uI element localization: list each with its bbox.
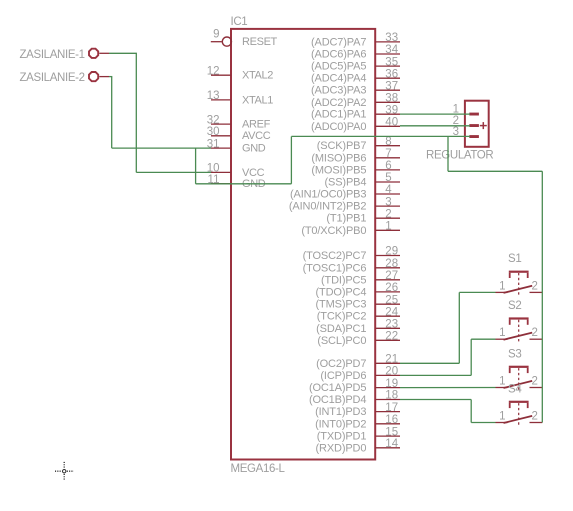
pin 12 (XTAL2) of IC1, left side [211,74,231,76]
wire PA1 net: IC1 pin 39 to REGULATOR pin 1 [400,113,470,115]
svg-text:5: 5 [385,172,391,184]
svg-text:(MOSI)PB5: (MOSI)PB5 [311,164,366,176]
svg-text:(SCL)PC0: (SCL)PC0 [317,335,366,347]
S1 actuator dashed link [518,273,520,295]
svg-text:14: 14 [385,438,398,450]
S3 actuator left stub [509,368,511,373]
pin 16 ((INT0)PD2) of IC1, right side [375,423,400,425]
wire GND net: branch down to pin 11 row [195,148,197,184]
svg-text:2: 2 [532,280,538,292]
S4 actuator right stub [527,403,529,408]
switch S4 (push button) [496,383,543,425]
svg-text:(INT0)PD2: (INT0)PD2 [315,418,366,430]
svg-text:VCC: VCC [242,167,265,179]
svg-text:32: 32 [207,114,220,126]
svg-text:S4: S4 [508,383,522,395]
switch S2 (push button) [496,300,543,342]
svg-text:6: 6 [385,160,391,172]
pin 14 ((RXD)PD0) of IC1, right side [375,447,400,449]
pin 6 ((MOSI)PB5) of IC1, right side [375,169,400,171]
pin 22 ((SCL)PC0) of IC1, right side [375,339,400,341]
pin 10 (VCC) of IC1, left side [211,171,231,173]
pin 25 ((TMS)PC3) of IC1, right side [375,303,400,305]
connector pad ZASILANIE-2 [20,72,110,84]
pin 27 ((TDI)PC5) of IC1, right side [375,279,400,281]
pin 32 (AREF) of IC1, left side [211,123,231,125]
svg-text:ZASILANIE-2: ZASILANIE-2 [20,72,85,84]
svg-text:(TOSC2)PC7: (TOSC2)PC7 [303,250,367,262]
S1 pin 1 line [496,291,508,293]
pin 2 ((T1)PB1) of IC1, right side [375,217,400,219]
svg-text:28: 28 [385,258,398,270]
S4 actuator left stub [509,403,511,408]
REGULATOR contact pin 3 [469,135,479,138]
svg-text:(MISO)PB6: (MISO)PB6 [311,152,366,164]
S1 actuator right stub [527,273,529,278]
svg-text:AVCC: AVCC [242,130,271,142]
pin 11 (GND) of IC1, left side [211,183,231,185]
polarity + mark [480,125,487,127]
svg-text:17: 17 [385,402,398,414]
svg-text:(ICP)PD6: (ICP)PD6 [320,370,366,382]
svg-text:20: 20 [385,366,398,378]
junction GND at regulator pin 3 drop [447,136,449,171]
connector REGULATOR body [426,101,493,162]
svg-text:MEGA16-L: MEGA16-L [231,463,286,475]
wire PD4 net: down to S4 [470,400,472,423]
svg-text:(SDA)PC1: (SDA)PC1 [316,323,366,335]
svg-text:39: 39 [385,104,398,116]
pin 20 ((ICP)PD6) of IC1, right side [375,374,400,376]
pin 8 ((SCK)PB7) of IC1, right side [375,145,400,147]
pin stub of ZASILANIE-1 [99,52,109,54]
pin 21 ((OC2)PD7) of IC1, right side [375,362,400,364]
switch S3 (push button) [496,348,543,390]
svg-text:(OC1B)PD4: (OC1B)PD4 [309,394,366,406]
pin 4 ((AIN1/OC0)PB3) of IC1, right side [375,193,400,195]
svg-text:30: 30 [207,126,220,138]
svg-text:19: 19 [385,378,398,390]
pin 1 ((T0/XCK)PB0) of IC1, right side [375,229,400,231]
switch S1 (push button) [496,253,543,295]
svg-text:1: 1 [499,327,505,339]
svg-text:(TMS)PC3: (TMS)PC3 [316,299,367,311]
svg-text:1: 1 [499,376,505,388]
REGULATOR contact pin 2 [469,124,479,127]
svg-text:1: 1 [385,221,391,233]
svg-text:(ADC3)PA3: (ADC3)PA3 [311,85,366,97]
svg-text:1: 1 [499,280,505,292]
svg-text:23: 23 [385,319,398,331]
pin 23 ((SDA)PC1) of IC1, right side [375,327,400,329]
pin 40 ((ADC0)PA0) of IC1, right side [375,125,400,127]
wire GND net: to IC1 pin 31 [112,147,211,149]
S1 contact blade [504,286,533,293]
S3 pin 1 line [496,387,508,389]
svg-text:GND: GND [242,143,266,155]
wire PA0 net: IC1 pin 40 to REGULATOR pin 2 [400,125,470,127]
wire PD4 net: IC1 pin 18 out [400,399,471,401]
wire PD7 net: up to S1 [458,292,460,363]
svg-text:2: 2 [532,411,538,423]
svg-text:S3: S3 [508,348,521,360]
svg-text:(ADC2)PA2: (ADC2)PA2 [311,97,366,109]
svg-text:(RXD)PD0: (RXD)PD0 [316,442,367,454]
svg-text:1: 1 [499,411,505,423]
wire PD4 net: to S4 pin 1 [471,422,495,424]
svg-text:25: 25 [385,294,398,306]
pin 18 ((OC1B)PD4) of IC1, right side [375,399,400,401]
S4 actuator dashed link [518,403,520,425]
svg-text:33: 33 [385,32,398,44]
svg-text:8: 8 [385,136,391,148]
wire GND net: horizontal to switch rail [448,170,542,172]
svg-text:(ADC4)PA4: (ADC4)PA4 [311,73,366,85]
svg-text:15: 15 [385,426,398,438]
svg-text:S2: S2 [508,300,521,312]
svg-text:(TOSC1)PC6: (TOSC1)PC6 [303,262,367,274]
S1 actuator bar [509,271,529,273]
connector pad ZASILANIE-1 [20,49,110,61]
svg-text:29: 29 [385,246,398,258]
svg-text:3: 3 [385,196,391,208]
pin 3 ((AIN0/INT2)PB2) of IC1, right side [375,205,400,207]
wire PD5 net: IC1 pin 19 to S3 pin 1 [400,387,496,389]
svg-text:(TDO)PC4: (TDO)PC4 [316,286,367,298]
svg-text:9: 9 [213,29,219,41]
pin 13 (XTAL1) of IC1, left side [211,99,231,101]
pin 30 (AVCC) of IC1, left side [211,135,231,137]
S2 pin 2 line [530,338,543,340]
S3 actuator right stub [527,368,529,373]
S3 actuator dashed link [518,368,520,390]
pin 36 ((ADC4)PA4) of IC1, right side [375,77,400,79]
svg-text:13: 13 [207,90,220,102]
wire PD6 net: IC1 pin 20 out [400,374,471,376]
S2 contact blade [504,333,533,340]
wire VCC net: ZASILANIE-1 pad to corner [109,52,137,54]
svg-text:(OC2)PD7: (OC2)PD7 [316,358,366,370]
svg-text:(T1)PB1: (T1)PB1 [326,213,366,225]
svg-text:40: 40 [385,117,398,129]
svg-text:24: 24 [385,306,398,318]
pin 19 ((OC1A)PD5) of IC1, right side [375,387,400,389]
S4 contact blade [504,416,533,423]
svg-text:(SS)PB4: (SS)PB4 [325,177,367,189]
svg-text:2: 2 [385,208,391,220]
svg-text:(ADC7)PA7: (ADC7)PA7 [311,36,366,48]
svg-text:12: 12 [207,65,220,77]
svg-text:RESET: RESET [242,36,278,48]
wire PD6 net: to S2 pin 1 [471,338,495,340]
svg-text:34: 34 [385,44,398,56]
svg-text:36: 36 [385,68,398,80]
pin 15 ((TXD)PD1) of IC1, right side [375,435,400,437]
svg-text:22: 22 [385,331,398,343]
svg-text:AREF: AREF [242,119,271,131]
wire PD7 net: to S1 pin 1 [459,291,495,293]
S1 pin 2 line [530,291,543,293]
S3 contact blade [504,381,533,388]
svg-text:18: 18 [385,390,398,402]
pin 29 ((TOSC2)PC7) of IC1, right side [375,255,400,257]
svg-text:27: 27 [385,270,398,282]
svg-text:(OC1A)PD5: (OC1A)PD5 [309,382,366,394]
pin 39 ((ADC1)PA1) of IC1, right side [375,113,400,115]
pin 38 ((ADC2)PA2) of IC1, right side [375,101,400,103]
svg-text:16: 16 [385,414,398,426]
svg-text:(TCK)PC2: (TCK)PC2 [317,311,367,323]
pin 34 ((ADC6)PA6) of IC1, right side [375,53,400,55]
svg-text:(INT1)PD3: (INT1)PD3 [315,406,366,418]
pin 7 ((MISO)PB6) of IC1, right side [375,157,400,159]
pin 31 (GND) of IC1, left side [211,147,231,149]
S3 pin 2 line [530,387,543,389]
svg-text:2: 2 [532,327,538,339]
pin 33 ((ADC7)PA7) of IC1, right side [375,41,400,43]
svg-text:ZASILANIE-1: ZASILANIE-1 [20,49,85,61]
svg-text:(AIN0/INT2)PB2: (AIN0/INT2)PB2 [289,201,366,213]
svg-text:4: 4 [385,184,392,196]
svg-text:7: 7 [385,148,391,160]
wire GND net: ZASILANIE-2 pad to corner [109,76,112,78]
svg-text:(ADC0)PA0: (ADC0)PA0 [311,121,366,133]
pin 26 ((TDO)PC4) of IC1, right side [375,291,400,293]
pin 35 ((ADC5)PA5) of IC1, right side [375,65,400,67]
S2 actuator bar [509,317,529,319]
svg-text:26: 26 [385,282,398,294]
svg-text:(TDI)PC5: (TDI)PC5 [321,274,366,286]
wire GND net: vertical inside IC1 [290,136,292,183]
wire GND net: vertical switch rail [541,171,543,422]
wire GND net: vertical drop [111,77,113,149]
svg-text:S1: S1 [508,253,521,265]
svg-text:(ADC6)PA6: (ADC6)PA6 [311,49,366,61]
S2 actuator right stub [527,320,529,325]
svg-text:(ADC1)PA1: (ADC1)PA1 [311,109,366,121]
wire GND net: through IC1 pin 11 row [196,183,292,185]
svg-text:REGULATOR: REGULATOR [426,150,493,162]
S2 pin 1 line [496,338,508,340]
wire VCC net: to IC1 pin 10 [136,171,211,173]
svg-text:2: 2 [532,376,538,388]
pin 9 (RESET) of IC1, left side [211,41,222,43]
origin crosshair marker (dotted) [55,462,74,481]
svg-text:21: 21 [385,354,398,366]
S1 actuator left stub [509,273,511,278]
ic IC1 MEGA16-L body outline [231,29,375,460]
S4 pin 1 line [496,422,508,424]
pin 17 ((INT1)PD3) of IC1, right side [375,411,400,413]
REGULATOR contact pin 1 [469,113,479,116]
S4 actuator bar [509,401,529,403]
svg-text:XTAL1: XTAL1 [242,94,273,106]
svg-text:IC1: IC1 [231,16,248,28]
pin 5 ((SS)PB4) of IC1, right side [375,181,400,183]
wire GND net: across to REGULATOR pin 3 [291,135,470,137]
svg-text:(SCK)PB7: (SCK)PB7 [317,140,367,152]
svg-text:38: 38 [385,93,398,105]
S2 actuator dashed link [518,320,520,342]
svg-text:(TXD)PD1: (TXD)PD1 [317,431,367,443]
S3 actuator bar [509,366,529,368]
pin 28 ((TOSC1)PC6) of IC1, right side [375,267,400,269]
S2 actuator left stub [509,320,511,325]
wire PD7 net: IC1 pin 21 out [400,362,459,364]
svg-text:35: 35 [385,56,398,68]
pin 24 ((TCK)PC2) of IC1, right side [375,315,400,317]
svg-text:37: 37 [385,80,398,92]
wire VCC net: vertical drop [135,53,137,172]
svg-text:(ADC5)PA5: (ADC5)PA5 [311,61,366,73]
wire PD6 net: up to S2 [470,339,472,375]
svg-text:XTAL2: XTAL2 [242,70,273,82]
pin 37 ((ADC3)PA3) of IC1, right side [375,89,400,91]
pin stub of ZASILANIE-2 [99,76,109,78]
svg-text:(AIN1/OC0)PB3: (AIN1/OC0)PB3 [290,189,366,201]
svg-text:(T0/XCK)PB0: (T0/XCK)PB0 [301,225,366,237]
S4 pin 2 line [530,422,543,424]
inversion bubble on pin 9 RESET [222,37,231,46]
